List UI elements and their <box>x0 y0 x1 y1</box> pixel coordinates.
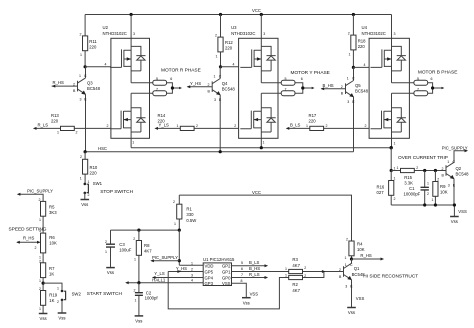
svg-text:4: 4 <box>233 62 235 66</box>
svg-text:MOTOR B PHASE: MOTOR B PHASE <box>418 70 458 76</box>
svg-text:5: 5 <box>156 77 158 81</box>
svg-text:B: B <box>339 275 342 279</box>
svg-text:HALL1: HALL1 <box>152 278 166 283</box>
U3 package outline <box>239 38 278 138</box>
svg-text:1: 1 <box>394 142 396 146</box>
wire gate P to U4 pin 4 <box>353 66 369 68</box>
svg-text:C: C <box>453 160 456 164</box>
junction R18 top on VCC <box>352 13 355 16</box>
svg-text:2: 2 <box>88 193 90 197</box>
svg-text:B: B <box>73 89 76 93</box>
svg-text:1: 1 <box>214 75 216 79</box>
svg-text:R16: R16 <box>377 185 385 190</box>
svg-text:10K: 10K <box>440 190 448 195</box>
svg-text:MOTOR Y PHASE: MOTOR Y PHASE <box>291 70 330 76</box>
svg-text:R18: R18 <box>358 39 366 44</box>
resistor R5 3K3 <box>41 201 46 216</box>
svg-text:NTHD3102C: NTHD3102C <box>231 31 255 36</box>
resistor R9 10K <box>434 171 436 206</box>
output box pin7 <box>414 91 428 96</box>
svg-text:HI SIDE RECONSTRUCT: HI SIDE RECONSTRUCT <box>363 273 418 279</box>
svg-text:5: 5 <box>417 77 419 81</box>
svg-text:2: 2 <box>134 289 136 293</box>
svg-text:VSS: VSS <box>458 209 467 214</box>
resistor R13 220 <box>35 127 111 129</box>
svg-text:E: E <box>453 184 456 188</box>
svg-text:3.3K: 3.3K <box>404 181 413 186</box>
svg-text:2: 2 <box>80 155 82 159</box>
svg-text:2: 2 <box>234 124 236 128</box>
wire pot to R7 <box>42 253 44 263</box>
svg-text:R12: R12 <box>225 40 233 45</box>
wire R2 right to base join <box>303 272 324 278</box>
svg-text:BC548: BC548 <box>456 172 470 177</box>
svg-text:2: 2 <box>191 267 193 271</box>
svg-text:330: 330 <box>186 212 194 217</box>
wire HSC rail (lower) <box>85 151 353 153</box>
svg-text:STOP SWITCH: STOP SWITCH <box>100 189 133 195</box>
resistor R19 1K <box>41 291 46 306</box>
svg-text:R_LS: R_LS <box>38 123 49 128</box>
junction C1 top <box>423 169 426 172</box>
svg-text:1: 1 <box>132 141 134 145</box>
wire GP5 Y_HS <box>168 271 203 273</box>
svg-text:BC548: BC548 <box>355 89 369 94</box>
svg-text:U1 PIC12HV615: U1 PIC12HV615 <box>203 257 235 262</box>
resistor R17 220 <box>287 127 369 129</box>
svg-text:R8: R8 <box>144 243 150 248</box>
svg-text:R_HS: R_HS <box>360 253 372 258</box>
junction R12 top on VCC <box>219 13 222 16</box>
svg-text:B_HS: B_HS <box>249 266 260 271</box>
svg-text:220: 220 <box>358 44 366 49</box>
ground U1 Vss <box>242 298 251 306</box>
svg-text:6: 6 <box>301 77 303 81</box>
resistor R1 330 0.5W <box>178 195 180 230</box>
wire GP1 B_HS to R3 <box>232 271 289 273</box>
svg-text:OVER CURRENT TRIP: OVER CURRENT TRIP <box>398 155 448 161</box>
svg-text:4K7: 4K7 <box>292 288 300 293</box>
svg-text:2: 2 <box>437 178 439 182</box>
svg-text:SW1: SW1 <box>93 181 103 186</box>
svg-text:10K: 10K <box>49 241 57 246</box>
node R_HS base wire <box>52 85 78 87</box>
svg-text:1: 1 <box>174 222 176 226</box>
svg-text:R15: R15 <box>404 175 412 180</box>
svg-text:4: 4 <box>364 63 366 67</box>
U2 package outline <box>111 38 150 138</box>
junction R12/Q4/U3 gate node <box>219 65 222 68</box>
svg-text:B: B <box>208 90 211 94</box>
resistor R7 1K <box>41 263 46 278</box>
svg-text:2: 2 <box>348 32 350 36</box>
wire R19 to ground <box>42 305 44 313</box>
capacitor C2 1000pf <box>138 283 140 316</box>
svg-text:7: 7 <box>285 88 287 92</box>
svg-text:B: B <box>442 173 445 177</box>
node Y_HS base wire <box>188 86 213 88</box>
wire pin1 node down to R15/R16 junction <box>390 148 392 171</box>
svg-text:2: 2 <box>107 124 109 128</box>
capacitor C1 10000pF <box>424 171 426 206</box>
svg-text:1: 1 <box>57 130 59 134</box>
svg-text:B_LS: B_LS <box>290 123 301 128</box>
resistor R11 220 <box>84 15 86 67</box>
svg-text:E: E <box>84 98 87 102</box>
wire VCC mid rail <box>179 195 351 241</box>
svg-text:4K7: 4K7 <box>292 263 300 268</box>
wire output join to motor R terminal <box>167 83 180 94</box>
svg-text:10K: 10K <box>357 247 365 252</box>
wire GP3 HALL1 <box>127 282 204 284</box>
svg-text:R9: R9 <box>440 184 446 189</box>
svg-text:2: 2 <box>442 167 444 171</box>
svg-text:GP2: GP2 <box>222 264 231 269</box>
svg-text:PIC_SUPPLY: PIC_SUPPLY <box>27 189 53 194</box>
P-mosfet of U3 <box>240 38 275 82</box>
svg-text:027: 027 <box>377 190 385 195</box>
resistor R3 4K7 <box>289 269 303 273</box>
svg-text:6: 6 <box>431 77 433 81</box>
wire gate P to U3 pin 4 <box>221 66 239 68</box>
svg-text:2: 2 <box>196 124 198 128</box>
svg-text:C: C <box>350 263 353 267</box>
svg-text:1000pf: 1000pf <box>145 295 159 300</box>
svg-text:10000pF: 10000pF <box>404 192 421 197</box>
svg-text:3: 3 <box>448 184 450 188</box>
svg-text:VDD: VDD <box>205 264 214 269</box>
svg-text:SW2: SW2 <box>72 292 82 297</box>
svg-text:GP4: GP4 <box>205 275 214 280</box>
svg-text:R19: R19 <box>49 292 57 297</box>
junction R4/Q1 collector node <box>350 257 353 260</box>
output box pin5 <box>414 80 428 85</box>
svg-text:2: 2 <box>339 268 341 272</box>
svg-text:R17: R17 <box>309 113 317 118</box>
svg-text:0.5W: 0.5W <box>186 218 196 223</box>
ground SW2 Vss <box>58 313 67 321</box>
svg-text:2: 2 <box>326 124 328 128</box>
svg-text:E: E <box>219 98 222 102</box>
svg-text:2: 2 <box>133 237 135 241</box>
svg-text:2: 2 <box>215 34 217 38</box>
N-mosfet of U4 <box>371 93 406 138</box>
svg-text:U4: U4 <box>362 25 368 30</box>
svg-text:1: 1 <box>345 256 347 260</box>
svg-text:GP0: GP0 <box>222 275 231 280</box>
svg-text:1: 1 <box>88 180 90 184</box>
svg-text:NTHD3102C: NTHD3102C <box>362 31 386 36</box>
svg-text:MOTOR R PHASE: MOTOR R PHASE <box>161 68 201 74</box>
svg-text:Q2: Q2 <box>456 166 462 171</box>
svg-text:GP1: GP1 <box>222 270 231 275</box>
svg-text:START SWITCH: START SWITCH <box>87 291 123 297</box>
svg-text:1: 1 <box>177 124 179 128</box>
svg-text:VSS: VSS <box>222 281 231 286</box>
svg-text:Y_LS: Y_LS <box>159 123 170 128</box>
svg-text:SPEED SETTING: SPEED SETTING <box>9 226 47 232</box>
junction U3 pin1 <box>260 146 263 149</box>
svg-text:HSC: HSC <box>98 146 107 151</box>
ground Q1 Vss <box>347 308 356 316</box>
svg-text:C: C <box>352 77 355 81</box>
svg-text:1: 1 <box>216 54 218 58</box>
svg-text:VSS: VSS <box>250 292 259 297</box>
svg-text:1: 1 <box>39 307 41 311</box>
svg-text:100uF: 100uF <box>119 248 131 253</box>
wire U3 pin7 out <box>261 92 281 94</box>
svg-text:B: B <box>341 92 344 96</box>
svg-text:2: 2 <box>365 124 367 128</box>
wire U2 pin 3 <box>130 15 132 39</box>
svg-text:8: 8 <box>241 279 243 283</box>
svg-text:3: 3 <box>347 100 349 104</box>
svg-text:2: 2 <box>105 240 107 244</box>
wire U4 pin 1 to shunt rail <box>391 138 393 147</box>
svg-text:Y_HS: Y_HS <box>190 81 201 86</box>
svg-text:2: 2 <box>57 300 59 304</box>
svg-text:1: 1 <box>263 141 265 145</box>
N-mosfet of U3 <box>240 93 275 138</box>
svg-text:4: 4 <box>105 62 107 66</box>
svg-text:2: 2 <box>80 33 82 37</box>
svg-text:6: 6 <box>170 77 172 81</box>
svg-text:1: 1 <box>134 258 136 262</box>
svg-text:1: 1 <box>349 53 351 57</box>
svg-text:C: C <box>84 74 87 78</box>
svg-text:1: 1 <box>394 177 396 181</box>
svg-text:220: 220 <box>90 171 98 176</box>
resistor R10 220 <box>84 152 86 183</box>
wire output join to motor Y terminal <box>295 83 313 94</box>
svg-text:6: 6 <box>241 267 243 271</box>
junction Q4 emitter <box>219 150 222 153</box>
svg-text:PIC_SUPPLY: PIC_SUPPLY <box>152 255 178 260</box>
svg-text:1: 1 <box>347 77 349 81</box>
svg-text:Q1: Q1 <box>354 266 360 271</box>
junction R9 top <box>434 169 437 172</box>
svg-text:7: 7 <box>241 273 243 277</box>
svg-text:1: 1 <box>306 124 308 128</box>
svg-text:1: 1 <box>57 287 59 291</box>
svg-text:Q3: Q3 <box>87 81 93 86</box>
svg-text:B_LS: B_LS <box>249 260 260 265</box>
ground SW1 Vss <box>81 200 90 208</box>
svg-text:3: 3 <box>394 32 396 36</box>
junction R18/Q5/U4 gate node <box>352 66 355 69</box>
switch SW2 <box>61 290 66 302</box>
transistor Q1 BC548 <box>344 263 352 280</box>
svg-text:R4: R4 <box>357 242 363 247</box>
svg-text:1: 1 <box>285 267 287 271</box>
wire U3 pin5 out <box>261 82 281 84</box>
potentiometer R6 10K <box>41 233 46 253</box>
svg-text:1: 1 <box>397 166 399 170</box>
capacitor C3 100uF <box>110 230 112 268</box>
ground R19 Vss <box>39 314 48 322</box>
svg-text:1: 1 <box>79 74 81 78</box>
wire GP0 R_LS <box>232 277 267 279</box>
ground OCT Vss <box>450 217 459 225</box>
svg-text:220: 220 <box>51 119 59 124</box>
wire gate P to U2 pin 4 <box>85 66 111 68</box>
svg-text:2: 2 <box>416 166 418 170</box>
node B_HS base wire <box>321 88 345 90</box>
svg-text:GP3: GP3 <box>205 281 214 286</box>
wire SW1 to ground <box>84 193 86 200</box>
transistor Q2 BC548 <box>446 162 454 179</box>
svg-text:R3: R3 <box>292 257 298 262</box>
svg-text:3: 3 <box>345 284 347 288</box>
svg-text:R6: R6 <box>49 235 55 240</box>
svg-text:1: 1 <box>191 261 193 265</box>
wire R3 to Q1 base <box>303 271 344 273</box>
junction U3 pin3 on VCC <box>260 13 263 16</box>
svg-text:R_HS: R_HS <box>53 80 65 85</box>
svg-text:3: 3 <box>133 32 135 36</box>
wire U4 pin5 out <box>392 82 414 84</box>
N-mosfet of U2 <box>110 93 145 138</box>
wire source rail (upper) <box>131 147 391 149</box>
transistor Q3 BC548 <box>78 78 86 95</box>
wire loop GP5 to R2 <box>168 272 289 309</box>
svg-text:U2: U2 <box>103 25 109 30</box>
svg-text:1: 1 <box>80 53 82 57</box>
ground C3 Vss <box>106 268 115 276</box>
wire U2 pin7 out <box>131 92 153 94</box>
svg-text:R7: R7 <box>49 266 55 271</box>
ground C2 Vss <box>135 316 144 324</box>
resistor R8 4K7 <box>138 230 140 282</box>
output box pin7 <box>153 91 167 96</box>
svg-text:220: 220 <box>225 46 233 51</box>
svg-text:1: 1 <box>432 198 434 202</box>
resistor R16 027 shunt <box>390 171 392 206</box>
svg-text:E: E <box>350 284 353 288</box>
svg-text:5: 5 <box>285 77 287 81</box>
wire U3 pin 3 <box>260 15 262 39</box>
resistor R2 4K7 <box>289 275 303 279</box>
resistor R15 3.3K <box>391 170 446 172</box>
wire SW2 to ground <box>61 300 63 313</box>
svg-text:VSS: VSS <box>356 296 365 301</box>
svg-text:2: 2 <box>394 197 396 201</box>
U4 package outline <box>369 38 409 138</box>
svg-text:220: 220 <box>309 119 317 124</box>
transistor Q4 BC548 <box>212 79 220 96</box>
svg-text:NTHD3102C: NTHD3102C <box>103 31 127 36</box>
wire GP4 Y_LS <box>153 277 203 279</box>
output box pin5 <box>281 80 295 85</box>
transistor Q5 BC548 <box>346 81 354 98</box>
svg-text:1: 1 <box>447 160 449 164</box>
svg-text:2: 2 <box>39 198 41 202</box>
svg-text:R10: R10 <box>90 165 98 170</box>
svg-text:2: 2 <box>304 266 306 270</box>
svg-text:2: 2 <box>35 246 37 250</box>
svg-text:2: 2 <box>76 130 78 134</box>
wire VCC top rail <box>85 14 391 16</box>
svg-text:R13: R13 <box>51 113 59 118</box>
svg-text:GP5: GP5 <box>205 270 214 275</box>
svg-text:R2: R2 <box>292 282 298 287</box>
resistor R14 220 <box>156 127 239 129</box>
wire R1 bottom node <box>111 229 180 231</box>
svg-text:3: 3 <box>263 32 265 36</box>
svg-text:3: 3 <box>214 98 216 102</box>
wire U4 pin 3 <box>391 15 393 39</box>
junction Q3 emitter / R10 <box>84 150 87 153</box>
wire U2 pin5 out <box>131 82 153 84</box>
svg-text:5: 5 <box>241 261 243 265</box>
svg-text:R1: R1 <box>186 207 192 212</box>
IC U1 PIC12HV615 <box>203 263 231 286</box>
svg-text:3: 3 <box>80 98 82 102</box>
wire junction to SW2 <box>43 283 62 290</box>
switch SW1 <box>84 183 89 195</box>
svg-text:2: 2 <box>173 200 175 204</box>
wire PIC_SUPPLY node down to VDD <box>179 230 203 265</box>
svg-text:E: E <box>352 100 355 104</box>
svg-text:1K: 1K <box>49 298 54 303</box>
svg-text:C3: C3 <box>119 242 125 247</box>
wire U2 pin 1 to shunt rail <box>130 138 132 147</box>
wire U4 pin7 out <box>392 92 414 94</box>
svg-text:1: 1 <box>80 177 82 181</box>
svg-text:2: 2 <box>346 238 348 242</box>
wire output join to motor B terminal <box>428 83 443 94</box>
svg-text:4: 4 <box>191 279 193 283</box>
svg-text:1: 1 <box>105 250 107 254</box>
svg-text:3: 3 <box>191 273 193 277</box>
resistor R18 220 <box>352 15 354 68</box>
wire U3 pin 1 to shunt rail <box>260 138 262 147</box>
svg-text:R_LS: R_LS <box>249 272 260 277</box>
svg-text:Q4: Q4 <box>222 81 228 86</box>
wire VSS pin to ground <box>232 283 247 297</box>
svg-text:1: 1 <box>39 218 41 222</box>
svg-text:C: C <box>219 75 222 79</box>
svg-text:220: 220 <box>89 45 97 50</box>
svg-text:1: 1 <box>285 274 287 278</box>
svg-text:U3: U3 <box>231 25 237 30</box>
wire R5 to pot <box>42 216 44 233</box>
svg-text:R5: R5 <box>49 205 55 210</box>
junction R8/C2 on GP3 <box>137 281 140 284</box>
resistor R4 10K <box>349 241 354 256</box>
svg-text:4K7: 4K7 <box>144 249 152 254</box>
junction U2 pin3 on VCC <box>130 13 133 16</box>
wire GP2 B_LS <box>232 265 267 267</box>
svg-text:1: 1 <box>135 299 137 303</box>
svg-text:7: 7 <box>417 88 419 92</box>
svg-text:VCC: VCC <box>252 8 261 13</box>
svg-text:3K3: 3K3 <box>49 210 57 215</box>
svg-text:PIC_SUPPLY: PIC_SUPPLY <box>442 145 468 150</box>
wiper wire R_HS <box>17 241 39 243</box>
wire R7 to R19 junction <box>42 278 44 291</box>
svg-text:1: 1 <box>394 167 396 171</box>
output box pin7 <box>281 91 295 96</box>
svg-text:R14: R14 <box>158 113 166 118</box>
svg-text:Q5: Q5 <box>355 83 361 88</box>
svg-text:1K: 1K <box>49 272 54 277</box>
junction U4 pin1 / OCT tap <box>390 146 393 149</box>
svg-text:Y_LS: Y_LS <box>154 271 165 276</box>
output box pin5 <box>153 80 167 85</box>
junction R11/Q3/U2 gate node <box>84 65 87 68</box>
node R_HS output arrow <box>352 258 383 260</box>
